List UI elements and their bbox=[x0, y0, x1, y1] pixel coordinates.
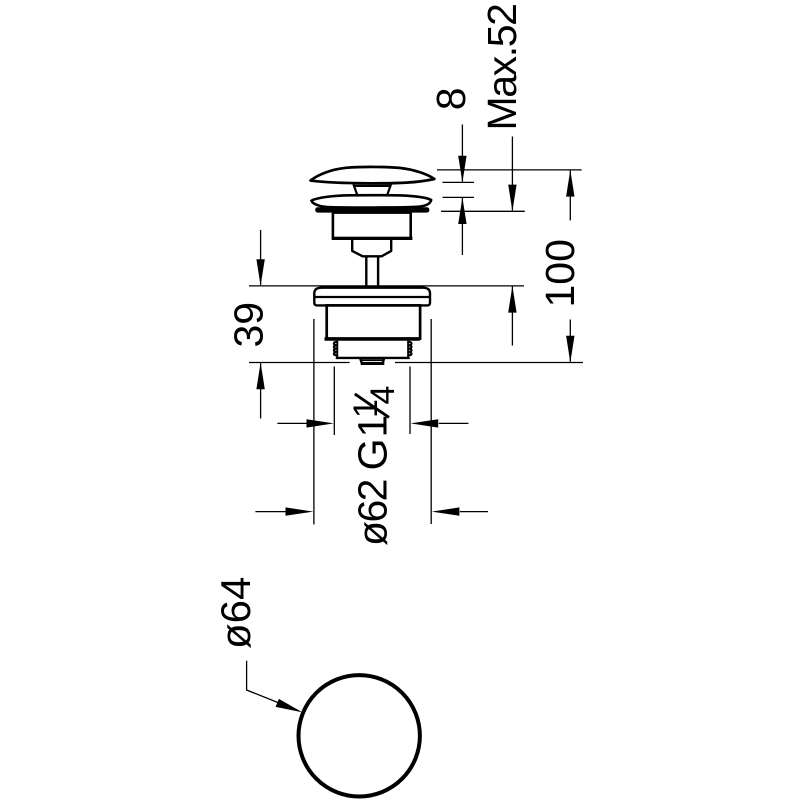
dim 100 upper arrow bbox=[566, 170, 574, 197]
dim G left arrow bbox=[307, 419, 334, 427]
dim 100 upper line bbox=[569, 171, 571, 221]
dim dia62 right line bbox=[460, 511, 488, 513]
svg-text:Max.52: Max.52 bbox=[479, 4, 525, 130]
dim G right arrow bbox=[411, 419, 439, 427]
extension line from cap top bbox=[437, 169, 582, 171]
cap stem trapezoid bbox=[353, 184, 391, 197]
cap underside bar bbox=[353, 185, 391, 187]
tick at cap bottom bbox=[443, 181, 475, 183]
dim 8 upper arrow bbox=[458, 156, 466, 183]
cap top lens bbox=[311, 167, 435, 183]
svg-text:100: 100 bbox=[537, 239, 583, 307]
leader line dia64 bbox=[247, 661, 299, 711]
rubber seal bar bbox=[315, 207, 429, 212]
lower body bottom edge bbox=[325, 337, 420, 340]
dim G left line bbox=[277, 422, 306, 424]
dim 8 lower arrow bbox=[458, 197, 466, 224]
bottom nub top line bbox=[362, 359, 384, 361]
dim Max.52 upper arrow bbox=[508, 185, 516, 212]
svg-text:4: 4 bbox=[364, 386, 402, 405]
dim 8 lower line bbox=[461, 198, 463, 255]
thread bottom edge bbox=[336, 357, 410, 359]
G thread extension line left bbox=[333, 367, 335, 436]
dim 100 lower line bbox=[569, 320, 571, 362]
dim 100 lower arrow bbox=[566, 336, 574, 363]
upper body bbox=[333, 213, 411, 239]
svg-text:ø62 G: ø62 G bbox=[350, 440, 396, 546]
bottom nub sides bbox=[360, 358, 384, 363]
seat lens bbox=[311, 195, 431, 207]
svg-text:39: 39 bbox=[226, 302, 272, 348]
dim Max.52 lower line bbox=[511, 287, 513, 346]
dim 8 upper line bbox=[461, 125, 463, 182]
dim 39 lower line bbox=[260, 363, 262, 418]
thread right crest coils bbox=[408, 342, 411, 356]
bottom circle bbox=[299, 675, 420, 796]
dim 39 lower arrow bbox=[256, 363, 264, 390]
bottom nub base bbox=[361, 362, 385, 365]
svg-text:ø64: ø64 bbox=[212, 577, 259, 649]
lower flange mid line bbox=[314, 296, 430, 298]
upper body bottom edge bbox=[332, 237, 413, 240]
dim Max.52 lower arrow bbox=[508, 286, 516, 313]
G thread extension line right bbox=[409, 367, 411, 435]
dim dia62 right arrow bbox=[432, 507, 460, 515]
thread left edge bbox=[336, 341, 338, 358]
label fraction slash bbox=[355, 394, 389, 418]
extension line from flange top bbox=[249, 285, 524, 287]
leader arrow bbox=[276, 699, 303, 712]
dim Max.52 upper line bbox=[511, 137, 513, 211]
nut below body bbox=[352, 240, 391, 257]
dim dia62 left line bbox=[255, 511, 285, 513]
lower body bbox=[327, 305, 420, 338]
dim dia62 left arrow bbox=[286, 507, 314, 515]
extension line from thread bottom left bbox=[249, 362, 350, 364]
tick at seat top bbox=[443, 196, 475, 198]
dim 39 upper line bbox=[260, 230, 262, 285]
dia62 extension line left bbox=[313, 319, 315, 525]
dim G right line bbox=[439, 422, 469, 424]
stem rod bbox=[366, 256, 378, 286]
dim 39 upper arrow bbox=[256, 259, 264, 286]
svg-text:8: 8 bbox=[428, 87, 474, 110]
extension line from seal bottom bbox=[441, 210, 525, 212]
thread right edge bbox=[407, 341, 409, 358]
dia62 extension line right bbox=[430, 319, 432, 524]
extension line from thread bottom right bbox=[395, 362, 583, 364]
lower flange outline bbox=[314, 288, 430, 306]
thread left crest coils bbox=[334, 342, 337, 356]
